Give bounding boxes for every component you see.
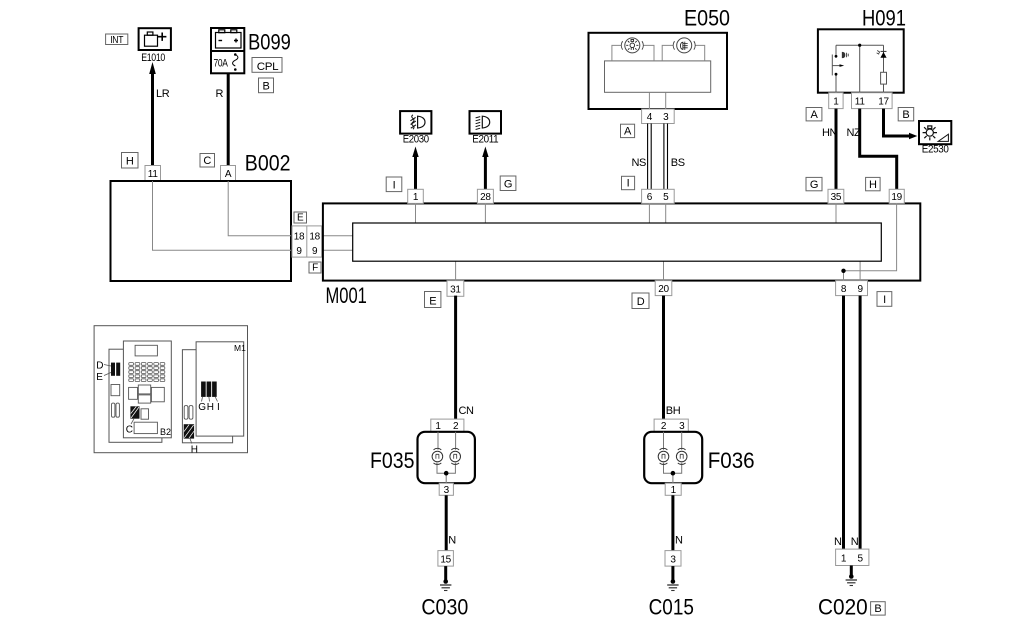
svg-text:E: E <box>96 372 103 383</box>
svg-text:5: 5 <box>857 554 863 565</box>
svg-text:I: I <box>883 294 886 306</box>
svg-text:H091: H091 <box>862 6 906 31</box>
svg-text:B2: B2 <box>160 427 171 437</box>
svg-text:F035: F035 <box>370 448 415 473</box>
svg-text:3: 3 <box>444 485 450 496</box>
svg-text:3: 3 <box>679 421 685 432</box>
svg-text:8: 8 <box>841 284 847 295</box>
svg-text:1: 1 <box>833 97 839 108</box>
svg-text:H: H <box>126 155 134 167</box>
svg-text:B: B <box>874 603 881 615</box>
svg-text:F036: F036 <box>708 448 755 473</box>
svg-text:35: 35 <box>831 192 842 203</box>
svg-text:C015: C015 <box>649 595 694 620</box>
svg-text:LR: LR <box>156 88 170 100</box>
svg-text:H: H <box>207 402 214 413</box>
svg-text:C: C <box>203 155 211 167</box>
svg-text:B002: B002 <box>245 150 291 175</box>
svg-text:B099: B099 <box>248 29 291 54</box>
svg-text:4: 4 <box>647 112 653 123</box>
svg-text:BS: BS <box>671 157 685 169</box>
svg-text:B: B <box>263 80 270 92</box>
svg-text:G: G <box>810 179 818 191</box>
svg-text:18: 18 <box>309 231 320 242</box>
svg-text:BH: BH <box>666 405 681 417</box>
svg-text:A: A <box>811 109 819 121</box>
svg-text:M001: M001 <box>326 283 367 308</box>
svg-text:F: F <box>312 263 318 274</box>
svg-text:CPL: CPL <box>257 61 279 73</box>
svg-text:E050: E050 <box>684 5 730 30</box>
svg-text:19: 19 <box>891 192 902 203</box>
svg-text:1: 1 <box>413 192 419 203</box>
svg-text:D: D <box>96 360 103 371</box>
svg-text:G: G <box>198 402 206 413</box>
svg-text:31: 31 <box>450 284 461 295</box>
svg-text:70A: 70A <box>214 57 229 69</box>
svg-text:R: R <box>216 88 224 100</box>
svg-text:I: I <box>627 178 630 190</box>
svg-text:I: I <box>393 179 396 191</box>
svg-text:E1010: E1010 <box>141 52 165 64</box>
svg-text:C020: C020 <box>818 595 868 620</box>
svg-text:D: D <box>637 296 645 308</box>
svg-text:NS: NS <box>632 157 647 169</box>
svg-text:CN: CN <box>459 405 475 417</box>
svg-text:2: 2 <box>661 421 667 432</box>
svg-text:17: 17 <box>878 97 889 108</box>
svg-text:9: 9 <box>312 246 318 257</box>
svg-text:2: 2 <box>453 421 459 432</box>
svg-text:E2011: E2011 <box>472 134 498 146</box>
svg-text:5: 5 <box>663 192 669 203</box>
svg-text:E: E <box>297 213 304 224</box>
svg-text:H: H <box>191 445 198 456</box>
svg-text:28: 28 <box>480 192 491 203</box>
svg-text:INT: INT <box>110 35 123 46</box>
svg-text:1: 1 <box>435 421 441 432</box>
svg-text:H: H <box>869 179 877 191</box>
svg-text:1: 1 <box>671 485 677 496</box>
svg-text:18: 18 <box>294 231 305 242</box>
svg-text:N: N <box>448 535 456 547</box>
svg-text:A: A <box>225 169 232 180</box>
svg-text:G: G <box>504 178 512 190</box>
svg-text:3: 3 <box>670 554 676 565</box>
svg-text:11: 11 <box>855 97 866 108</box>
svg-text:N: N <box>851 536 859 548</box>
svg-text:6: 6 <box>647 192 653 203</box>
svg-text:C: C <box>126 424 133 435</box>
svg-text:3: 3 <box>663 112 669 123</box>
svg-text:9: 9 <box>296 246 302 257</box>
svg-text:11: 11 <box>148 169 159 180</box>
svg-text:N: N <box>834 536 842 548</box>
svg-text:1: 1 <box>841 554 847 565</box>
svg-text:E2030: E2030 <box>403 134 429 146</box>
svg-text:M1: M1 <box>234 343 246 353</box>
svg-text:N: N <box>675 535 683 547</box>
svg-text:C030: C030 <box>421 595 468 620</box>
svg-text:E: E <box>429 295 436 307</box>
svg-text:9: 9 <box>857 284 863 295</box>
svg-text:15: 15 <box>440 554 451 565</box>
svg-text:A: A <box>624 126 632 138</box>
svg-text:I: I <box>217 402 220 413</box>
svg-text:E2530: E2530 <box>922 143 949 155</box>
svg-text:20: 20 <box>658 284 669 295</box>
svg-text:B: B <box>902 109 909 121</box>
